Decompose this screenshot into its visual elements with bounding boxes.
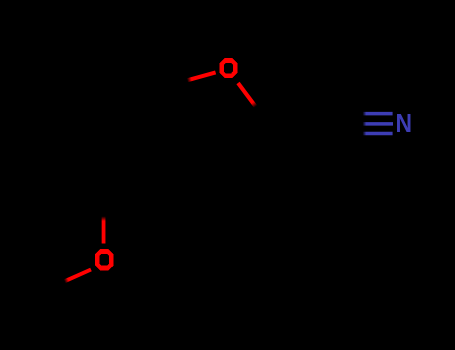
svg-text:N: N — [395, 110, 412, 139]
